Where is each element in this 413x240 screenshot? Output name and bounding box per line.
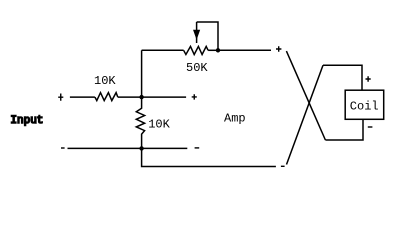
wire (cross diagonal from minus output up to coil plus side): [287, 65, 324, 164]
svg-text:10K: 10K: [94, 74, 116, 88]
wire (top rail): [142, 49, 184, 51]
junction node A: [139, 95, 143, 99]
wire (cross diagonal from plus output down to coil minus side): [286, 51, 325, 140]
svg-text:Coil: Coil: [350, 99, 379, 113]
svg-text:Input: Input: [10, 115, 43, 127]
svg-text:50K: 50K: [186, 61, 208, 75]
wire (coil bottom feed): [325, 119, 363, 140]
wire (pot right lead to junction): [208, 49, 218, 51]
terminal + (amp input plus): [192, 94, 197, 99]
terminal - (input minus): [61, 147, 65, 149]
coil Coil (load box): [345, 90, 384, 119]
wire (coil top feed): [323, 65, 362, 90]
junction (wiper tie to right lead): [216, 48, 220, 52]
terminal - (coil minus): [368, 126, 373, 128]
resistor 10K (shunt, vertical): [136, 97, 144, 148]
terminal - (amp input minus): [195, 147, 200, 149]
terminal + (input plus): [58, 94, 63, 101]
wire (wiper loop top): [197, 22, 218, 50]
wire (resistor to node A): [118, 96, 186, 98]
wire (top rail to plus output): [218, 49, 271, 51]
svg-text:10K: 10K: [148, 118, 170, 132]
potentiometer wiper arrow: [194, 22, 200, 43]
junction node B: [139, 146, 143, 150]
terminal + (coil plus): [366, 76, 371, 82]
terminal - (amp output minus): [281, 165, 285, 167]
potentiometer 50K (zigzag body): [184, 46, 209, 54]
wire (input plus lead): [70, 96, 95, 98]
wire (node A up to top rail): [141, 50, 143, 97]
wire (input minus lead): [68, 147, 188, 149]
wire (node B down and right, bottom rail): [142, 148, 276, 166]
resistor 10K (series input): [95, 93, 118, 101]
terminal + (amp output plus): [276, 46, 281, 52]
svg-text:Amp: Amp: [224, 112, 246, 126]
